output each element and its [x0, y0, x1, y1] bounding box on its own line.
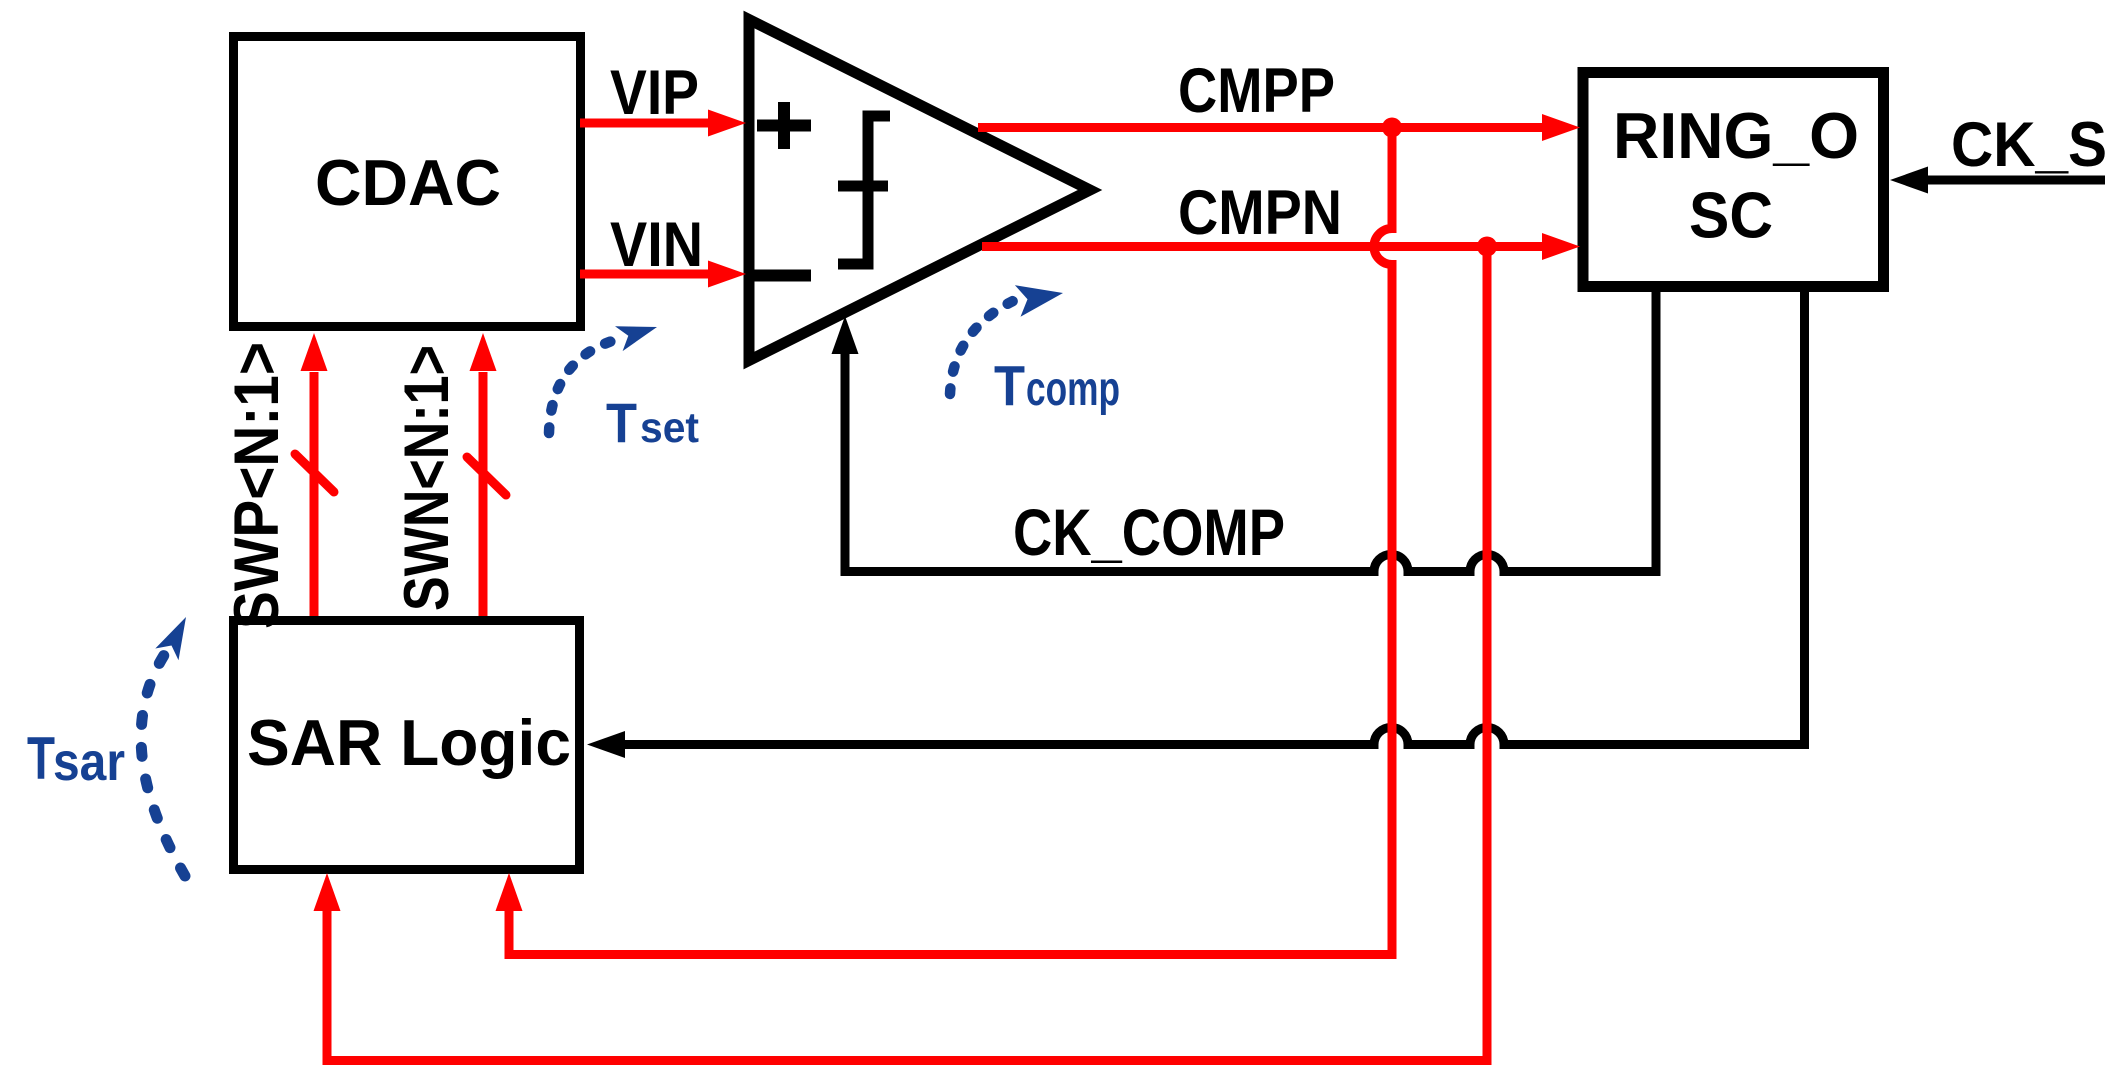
svg-text:CMPN: CMPN: [1178, 178, 1342, 248]
svg-text:SWP<N:1>: SWP<N:1>: [222, 342, 292, 629]
svg-text:CK_S: CK_S: [1951, 110, 2107, 180]
svg-text:SAR Logic: SAR Logic: [247, 706, 571, 779]
svg-text:comp: comp: [1026, 363, 1120, 416]
svg-text:T: T: [606, 391, 637, 454]
svg-text:RING_O: RING_O: [1613, 99, 1859, 172]
svg-text:SWN<N:1>: SWN<N:1>: [392, 345, 462, 611]
svg-text:CK_COMP: CK_COMP: [1013, 495, 1285, 569]
svg-text:SC: SC: [1689, 179, 1773, 252]
svg-text:VIP: VIP: [610, 58, 699, 128]
svg-text:T: T: [27, 725, 55, 792]
svg-text:sar: sar: [53, 732, 125, 792]
svg-text:CDAC: CDAC: [315, 146, 501, 219]
svg-text:set: set: [640, 404, 699, 452]
svg-text:CMPP: CMPP: [1178, 56, 1335, 126]
svg-text:T: T: [994, 354, 1025, 418]
svg-text:VIN: VIN: [610, 210, 703, 280]
